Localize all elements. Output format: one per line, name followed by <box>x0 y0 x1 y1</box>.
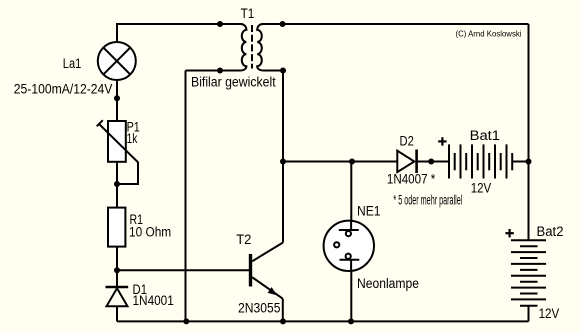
node dot T1 top-right <box>280 21 286 27</box>
wire emitter vertical <box>282 299 284 322</box>
wire D1 bottom lead <box>116 307 118 322</box>
svg-text:D2: D2 <box>400 134 414 149</box>
node dot R1 bottom <box>114 267 120 273</box>
wire transformer bottom lead left <box>186 70 241 72</box>
node dot collector/D2 <box>280 159 286 165</box>
wire P1 to R1 <box>116 162 118 208</box>
node dot D2/Bat1 <box>428 159 434 165</box>
svg-text:* 5 oder mehr parallel: * 5 oder mehr parallel <box>393 192 462 207</box>
node dot bottom rail x186 <box>183 318 189 324</box>
potentiometer P1 <box>97 120 138 184</box>
wire bottom rail <box>117 320 529 322</box>
wire D2 row <box>283 161 397 163</box>
wire D1 top lead <box>116 270 118 286</box>
svg-text:Bat1: Bat1 <box>470 128 500 143</box>
node dot bottom rail x283 <box>280 318 286 324</box>
svg-text:1k: 1k <box>127 131 138 146</box>
diode D1 <box>106 287 129 306</box>
svg-text:T1: T1 <box>241 6 255 21</box>
wire top rail right segment <box>263 23 529 25</box>
right winding <box>257 24 262 71</box>
wire right rail lower <box>528 306 530 322</box>
svg-text:NE1: NE1 <box>357 204 381 219</box>
wire R1 to node <box>116 247 118 271</box>
node dot lamp-P1 <box>114 95 120 101</box>
neon lamp NE1 <box>324 220 374 273</box>
battery Bat1 <box>449 144 512 178</box>
node dot T1 bottom-left <box>217 68 223 74</box>
battery Bat2 <box>511 240 546 305</box>
transistor T2 <box>251 243 284 299</box>
wire transformer bottom lead right <box>263 70 283 72</box>
wire top rail left segment <box>117 24 241 42</box>
svg-text:12V: 12V <box>471 180 492 195</box>
svg-text:25-100mA/12-24V: 25-100mA/12-24V <box>14 82 113 97</box>
svg-text:Bat2: Bat2 <box>537 224 564 239</box>
wire collector vertical x=283 <box>282 71 284 243</box>
node dot Bat1 right <box>526 159 532 165</box>
node dot bottom rail NE1 <box>348 318 354 324</box>
wire left winding return x=185.5 <box>185 71 187 322</box>
label Bat1 plus <box>438 137 446 145</box>
node dot NE1 top <box>349 159 355 165</box>
svg-text:(C) Arnd Koslowski: (C) Arnd Koslowski <box>456 29 522 38</box>
svg-text:2N3055: 2N3055 <box>238 300 281 315</box>
node dot T1 top-left <box>217 21 223 27</box>
wire right rail <box>528 24 530 240</box>
svg-text:T2: T2 <box>236 232 251 247</box>
left winding <box>241 24 247 71</box>
wire NE1 top lead <box>350 162 352 231</box>
svg-text:1N4001: 1N4001 <box>133 293 174 308</box>
svg-text:Neonlampe: Neonlampe <box>357 276 419 291</box>
svg-text:Bifilar gewickelt: Bifilar gewickelt <box>191 75 276 90</box>
wire D2 cathode to Bat1 <box>417 161 449 163</box>
lamp La1 <box>98 42 136 80</box>
svg-text:12V: 12V <box>539 306 560 321</box>
wire NE1 bottom lead <box>350 260 352 322</box>
svg-text:La1: La1 <box>63 56 82 71</box>
resistor R1 <box>108 208 125 247</box>
svg-text:1N4007 *: 1N4007 * <box>387 172 436 187</box>
diode D2 <box>397 150 416 174</box>
core dashed line <box>251 25 253 69</box>
svg-text:10 Ohm: 10 Ohm <box>129 224 171 239</box>
wire Bat1 right lead <box>512 161 528 163</box>
transformer T1 <box>241 24 263 71</box>
node dot P1 wiper <box>114 181 120 187</box>
wire base wire node to T2 base <box>117 269 249 271</box>
wire lamp bottom to P1 <box>116 80 118 121</box>
node dot T1 bottom-right <box>280 68 286 74</box>
label Bat2 plus <box>505 229 513 237</box>
